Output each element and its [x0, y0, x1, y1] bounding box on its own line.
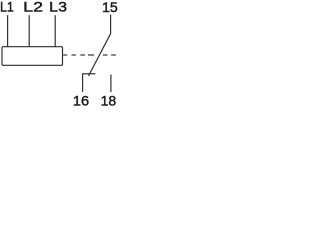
svg-text:16: 16	[73, 93, 89, 109]
wire L3 lead	[54, 15, 56, 47]
svg-text:L3: L3	[49, 0, 67, 15]
svg-text:18: 18	[101, 93, 117, 109]
wire dashed mechanical link	[63, 54, 116, 56]
wire 15 lead	[110, 15, 112, 34]
wire L1 lead	[7, 15, 9, 47]
wire 18 terminal (NO)	[110, 75, 112, 93]
svg-text:L2: L2	[23, 0, 43, 15]
relay box K1	[2, 47, 63, 66]
wire L2 lead	[28, 15, 30, 47]
wire 16 terminal	[82, 74, 84, 92]
svg-text:L1: L1	[0, 0, 14, 15]
svg-text:15: 15	[102, 0, 118, 15]
contact 16 (NC) bar	[82, 73, 95, 75]
switch lever (common 15)	[89, 33, 111, 76]
